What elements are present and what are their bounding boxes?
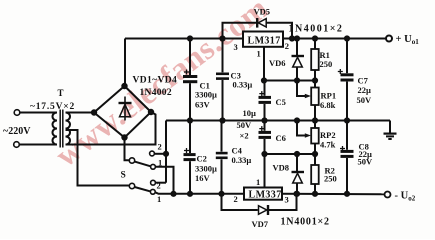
svg-text:6.8k: 6.8k [320, 100, 336, 110]
transformer T primary winding [53, 113, 58, 145]
diode VD6 [296, 39, 298, 56]
wire top rail right section [283, 38, 386, 40]
bottom output rail [282, 193, 385, 196]
svg-text:10µ: 10µ [243, 108, 257, 118]
RP1 wiper [297, 81, 305, 97]
svg-text:VD8: VD8 [273, 163, 290, 173]
svg-text:LM337: LM337 [249, 190, 282, 201]
capacitor C2 [189, 121, 191, 154]
wire [20, 112, 57, 114]
wire upper contact 2 to ground column [154, 153, 166, 155]
svg-text:3: 3 [234, 42, 238, 52]
svg-text:0.33µ: 0.33µ [232, 155, 252, 165]
capacitor C4 [221, 121, 223, 152]
switch S lower arm [135, 187, 150, 191]
svg-text:1: 1 [256, 177, 260, 187]
svg-text:0.33µ: 0.33µ [233, 80, 253, 90]
svg-text:~17.5V×2: ~17.5V×2 [30, 102, 75, 112]
switch S upper pivot [129, 158, 134, 163]
svg-text:1N4002: 1N4002 [140, 88, 172, 98]
switch S lower pole pivot [129, 183, 134, 188]
middle ground rail [166, 120, 390, 122]
wire upper contact 1 down to negative raw rail [155, 167, 173, 194]
svg-text:3300µ: 3300µ [195, 164, 217, 174]
ground symbol [389, 121, 391, 134]
switch S upper pole feed wire [125, 138, 130, 161]
svg-text:1: 1 [157, 194, 161, 204]
ground column wire [165, 121, 167, 183]
terminal lower input [14, 142, 20, 148]
svg-text:1: 1 [257, 49, 261, 59]
svg-text:VD5: VD5 [254, 7, 271, 17]
wire [19, 144, 57, 146]
pin 1 wire LM337 ADJ [264, 154, 266, 188]
ADJ node line [264, 80, 315, 82]
svg-text:50V: 50V [358, 157, 374, 167]
svg-text:VD7: VD7 [252, 219, 269, 229]
diode VD5 bypass loop [223, 23, 257, 39]
potentiometer RP2 [314, 121, 316, 129]
svg-text:50V: 50V [237, 120, 253, 130]
capacitor C6 [264, 121, 266, 131]
svg-text:C7: C7 [358, 76, 369, 86]
node bridge right [149, 110, 153, 114]
diode VD7 bypass loop [222, 194, 258, 210]
svg-text:2: 2 [285, 41, 289, 51]
svg-text:50V: 50V [357, 95, 373, 105]
potentiometer RP1 [314, 81, 316, 88]
svg-text:RP2: RP2 [320, 130, 336, 140]
terminal +Uo1 [386, 36, 392, 42]
bridge rectifier VD1~VD4 diamond [94, 86, 151, 138]
wire secondary bottom to bridge right [66, 112, 156, 145]
svg-text:T: T [58, 88, 64, 98]
junction [164, 152, 168, 156]
svg-text:2: 2 [234, 194, 238, 204]
capacitor C7 [346, 39, 348, 74]
svg-text:1N4001×2: 1N4001×2 [289, 24, 344, 35]
svg-text:C2: C2 [197, 154, 207, 164]
svg-text:C6: C6 [276, 133, 286, 143]
svg-text:VD1~VD4: VD1~VD4 [133, 76, 178, 86]
switch S lower contact 1 [150, 189, 155, 194]
junction dots bottom rail [171, 192, 175, 196]
regulator U1 LM317 box [243, 32, 283, 47]
wire secondary top to bridge left [66, 112, 95, 114]
svg-text:RP1: RP1 [321, 91, 337, 101]
svg-text:2: 2 [157, 181, 161, 191]
resistor R2 [314, 154, 316, 165]
wire bridge top to +rail [124, 39, 126, 87]
transformer T core [59, 110, 61, 148]
RP2 wiper [297, 121, 305, 136]
diode VD8 [296, 154, 298, 171]
pin 1 wire LM317 ADJ [263, 47, 265, 81]
capacitor C3 [222, 39, 224, 73]
watermark www.elecfans.com [48, 0, 274, 174]
switch S upper contact 1 [151, 164, 156, 169]
terminal -Uo2 [385, 192, 391, 198]
node bridge top [122, 84, 126, 88]
wire top rail left section [125, 38, 243, 40]
svg-text:2: 2 [158, 142, 162, 152]
node bridge left [92, 110, 96, 114]
wire lower contact 1 to rail [155, 192, 160, 194]
svg-text:~220V: ~220V [3, 126, 31, 137]
switch S lower contact 2 [151, 180, 156, 185]
svg-text:250: 250 [320, 59, 333, 69]
terminal upper input [14, 110, 20, 116]
resistor R1 [314, 39, 316, 50]
capacitor C8 [346, 121, 348, 150]
svg-text:C5: C5 [276, 97, 286, 107]
svg-text:1N4001×2: 1N4001×2 [281, 217, 330, 228]
LM337 ADJ node line [265, 153, 316, 155]
svg-text:×2: ×2 [240, 131, 249, 141]
svg-text:63V: 63V [195, 100, 211, 110]
wire lower contact 2 [155, 182, 166, 184]
switch S upper contact 2 [150, 151, 155, 156]
svg-text:S: S [121, 171, 126, 181]
wire secondary center tap [66, 130, 130, 186]
capacitor C1 [189, 39, 191, 76]
svg-text:LM317: LM317 [248, 36, 281, 47]
svg-text:4.7k: 4.7k [320, 140, 336, 150]
svg-text:250: 250 [324, 174, 337, 184]
capacitor C5 [264, 81, 266, 96]
svg-text:16V: 16V [195, 173, 211, 183]
bridge inner diode [124, 97, 126, 121]
svg-text:3: 3 [285, 195, 289, 205]
node bridge bottom [122, 135, 126, 139]
svg-text:22µ: 22µ [358, 85, 372, 95]
bottom raw negative rail [160, 193, 244, 195]
svg-text:VD6: VD6 [269, 58, 286, 68]
regulator U2 LM337 box [244, 188, 282, 200]
switch S upper arm [135, 162, 151, 167]
transformer T secondary winding [66, 113, 71, 145]
svg-text:1: 1 [158, 158, 162, 168]
svg-text:3300µ: 3300µ [195, 90, 217, 100]
svg-text:C4: C4 [232, 146, 243, 156]
